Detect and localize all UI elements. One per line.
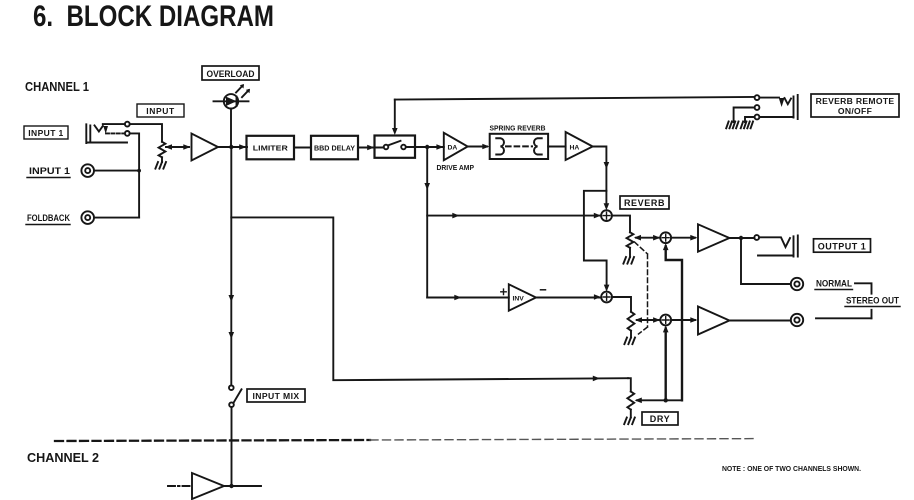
- LED D1 overload indicator: [214, 84, 251, 109]
- wire stereo bracket: [855, 283, 872, 318]
- wire output L to normal RCA: [741, 238, 791, 284]
- wire INV to node2: [536, 294, 601, 300]
- label STEREO OUT (underlined): [845, 296, 900, 307]
- wire node3 to output amp L: [671, 235, 697, 241]
- ground under pot2: [623, 257, 634, 264]
- svg-text:INPUT MIX: INPUT MIX: [252, 391, 299, 401]
- ground remote ring: [726, 122, 738, 129]
- wire dry feed corner to pot4: [628, 378, 631, 391]
- svg-text:HA: HA: [570, 144, 580, 151]
- wire DA to spring reverb: [468, 144, 490, 150]
- svg-text:DRIVE AMP: DRIVE AMP: [437, 163, 475, 172]
- svg-text:FOLDBACK: FOLDBACK: [27, 213, 70, 223]
- wire amp out to limiter: [218, 144, 247, 150]
- wire reverb tank to HA: [548, 146, 566, 148]
- wire dry feed from bus: [231, 217, 628, 381]
- svg-text:REVERB REMOTE: REVERB REMOTE: [816, 96, 895, 106]
- wire delay send down: [424, 147, 430, 298]
- label OUTPUT 1 (boxed): [814, 239, 871, 252]
- wire remote feedback top: [395, 97, 755, 100]
- junction main bus at amp output: [229, 145, 233, 149]
- potentiometer VR1 input level: [159, 142, 166, 157]
- svg-text:DRY: DRY: [650, 414, 670, 424]
- potentiometer VR3 reverb level R: [628, 312, 635, 331]
- wire amp L out to output jack: [729, 237, 754, 239]
- wire pot to ground: [161, 157, 163, 162]
- channel separator dashed: [55, 440, 370, 441]
- block LIMITER: [247, 136, 295, 160]
- ground under input pot: [155, 162, 166, 169]
- wire LED to bus: [230, 109, 232, 148]
- potentiometer VR2 reverb level L: [627, 232, 634, 247]
- label INPUT 1 (underlined): [27, 166, 70, 178]
- wire RCA to bracket: [816, 317, 872, 319]
- junction channel2 bus: [229, 484, 233, 488]
- wire channel2 amp input dash-dot: [168, 485, 192, 487]
- wire pot3 to ground: [630, 331, 632, 338]
- svg-text:BBD DELAY: BBD DELAY: [314, 144, 355, 153]
- svg-text:NORMAL: NORMAL: [816, 279, 852, 289]
- switch S1 effect in/out: [375, 136, 416, 158]
- label NORMAL (underlined): [815, 279, 853, 290]
- wire remote sleeve to ground: [745, 117, 755, 122]
- wire send to node1: [427, 213, 601, 219]
- summing node N1 reverb left: [601, 210, 612, 221]
- wire switch to DA amp: [406, 144, 444, 150]
- switch S2 input mix: [229, 385, 242, 407]
- potentiometer VR4 dry level: [627, 392, 634, 410]
- svg-text:OUTPUT 1: OUTPUT 1: [818, 241, 867, 251]
- label INPUT 1 (boxed): [24, 126, 68, 139]
- svg-text:SPRING REVERB: SPRING REVERB: [490, 124, 546, 133]
- jack J2 INPUT 1 RCA: [81, 164, 94, 177]
- wire limiter to bbd: [294, 147, 311, 149]
- summing node N2 reverb right: [601, 292, 612, 303]
- jack tip contact: [125, 122, 130, 127]
- svg-text:STEREO OUT: STEREO OUT: [846, 296, 899, 307]
- wire bbd to switch: [358, 145, 384, 151]
- label OVERLOAD (boxed): [202, 66, 259, 80]
- svg-text:INPUT 1: INPUT 1: [29, 166, 70, 176]
- op-amp A5 output L: [698, 224, 729, 251]
- label DRY (boxed): [642, 412, 678, 425]
- svg-text:LIMITER: LIMITER: [253, 144, 289, 153]
- wire dry riser to node3: [663, 243, 682, 400]
- wire send to INV: [427, 295, 509, 301]
- jack J7 reverb remote: [755, 95, 798, 119]
- wiper wire pot to amp: [165, 144, 191, 150]
- op-amp A1 input amp: [192, 134, 219, 161]
- wiper wire pot4 dry out: [635, 398, 682, 404]
- label plus: [501, 289, 506, 294]
- wire channel2 amp out: [224, 485, 261, 487]
- op-amp A4 INV: [509, 284, 536, 310]
- jack ring contact: [125, 131, 130, 136]
- jack J5 NORMAL RCA: [791, 278, 803, 290]
- channel separator dashed right: [370, 439, 757, 440]
- summing node N4 output R: [660, 315, 671, 326]
- svg-text:DA: DA: [448, 144, 458, 151]
- wire node1 to pot2 reverb level L: [612, 216, 630, 233]
- dashed gang link reverb pots: [635, 242, 648, 334]
- wire dry junction to node4: [663, 325, 669, 400]
- label REVERB (boxed): [620, 196, 669, 209]
- ground under pot3: [624, 338, 635, 345]
- svg-text:INV: INV: [513, 295, 525, 302]
- junction effect send: [425, 145, 429, 149]
- wire main bus vertical: [230, 147, 232, 385]
- arrow bus down 1: [229, 295, 235, 302]
- svg-text:CHANNEL 2: CHANNEL 2: [27, 450, 99, 465]
- op-amp A7 channel 2 input amp: [192, 473, 224, 499]
- jack J3 FOLDBACK RCA: [81, 211, 94, 224]
- ground remote sleeve: [741, 122, 753, 129]
- wire node2 to pot3 reverb level R: [612, 297, 631, 312]
- wire remote ring to ground: [734, 108, 755, 123]
- wire remote line down into switch: [392, 100, 398, 135]
- label INPUT MIX (boxed): [247, 389, 305, 402]
- block spring reverb tank: [490, 134, 548, 159]
- wire HA out to node1: [593, 147, 610, 211]
- arrow bus down 2: [229, 332, 235, 339]
- jack J4 OUTPUT 1 phone jack: [754, 235, 798, 256]
- svg-text:INPUT: INPUT: [146, 106, 175, 116]
- wiper wire pot3 to node4: [635, 317, 661, 323]
- wire pot4 to ground: [630, 410, 632, 418]
- svg-text:OVERLOAD: OVERLOAD: [207, 69, 255, 79]
- wire node4 to output amp R: [671, 317, 697, 323]
- op-amp A3 HA: [566, 132, 593, 160]
- wire reverb branch to node2: [584, 191, 610, 292]
- junction dry wiper: [664, 398, 668, 402]
- wire amp R out to RCA: [729, 320, 790, 322]
- svg-text:NOTE : ONE OF TWO CHANNELS SHO: NOTE : ONE OF TWO CHANNELS SHOWN.: [722, 464, 861, 473]
- wire INPUT1 RCA to bus: [94, 170, 139, 172]
- label minus: [541, 289, 546, 291]
- op-amp A2 DA drive amp: [444, 133, 468, 160]
- label INPUT (boxed): [137, 104, 184, 117]
- ground under pot4: [624, 418, 635, 425]
- svg-text:CHANNEL 1: CHANNEL 1: [25, 79, 89, 94]
- op-amp A6 output R: [698, 307, 729, 335]
- svg-text:ON/OFF: ON/OFF: [838, 106, 872, 116]
- svg-text:REVERB: REVERB: [624, 198, 665, 208]
- wire ring contact down to input jacks bus: [130, 133, 139, 217]
- summing node N3 output L: [660, 232, 671, 243]
- svg-text:INPUT 1: INPUT 1: [28, 128, 63, 138]
- wire input mix to channel 2: [231, 407, 233, 486]
- jack J6 stereo RCA: [791, 314, 803, 326]
- wiper wire pot2 to node3: [634, 235, 661, 241]
- wire FOLDBACK RCA to bus: [94, 217, 139, 219]
- block BBD DELAY: [311, 136, 358, 160]
- junction input bus: [137, 169, 141, 173]
- label REVERB REMOTE ON/OFF (boxed): [811, 94, 899, 117]
- label FOLDBACK (underlined): [26, 213, 70, 225]
- svg-text:6. BLOCK DIAGRAM: 6. BLOCK DIAGRAM: [33, 0, 274, 33]
- junction output L: [739, 236, 743, 240]
- jack J1 INPUT 1 phone jack: [86, 124, 127, 143]
- wire tip contact to input pot: [130, 124, 162, 142]
- wire pot2 to ground: [629, 248, 631, 257]
